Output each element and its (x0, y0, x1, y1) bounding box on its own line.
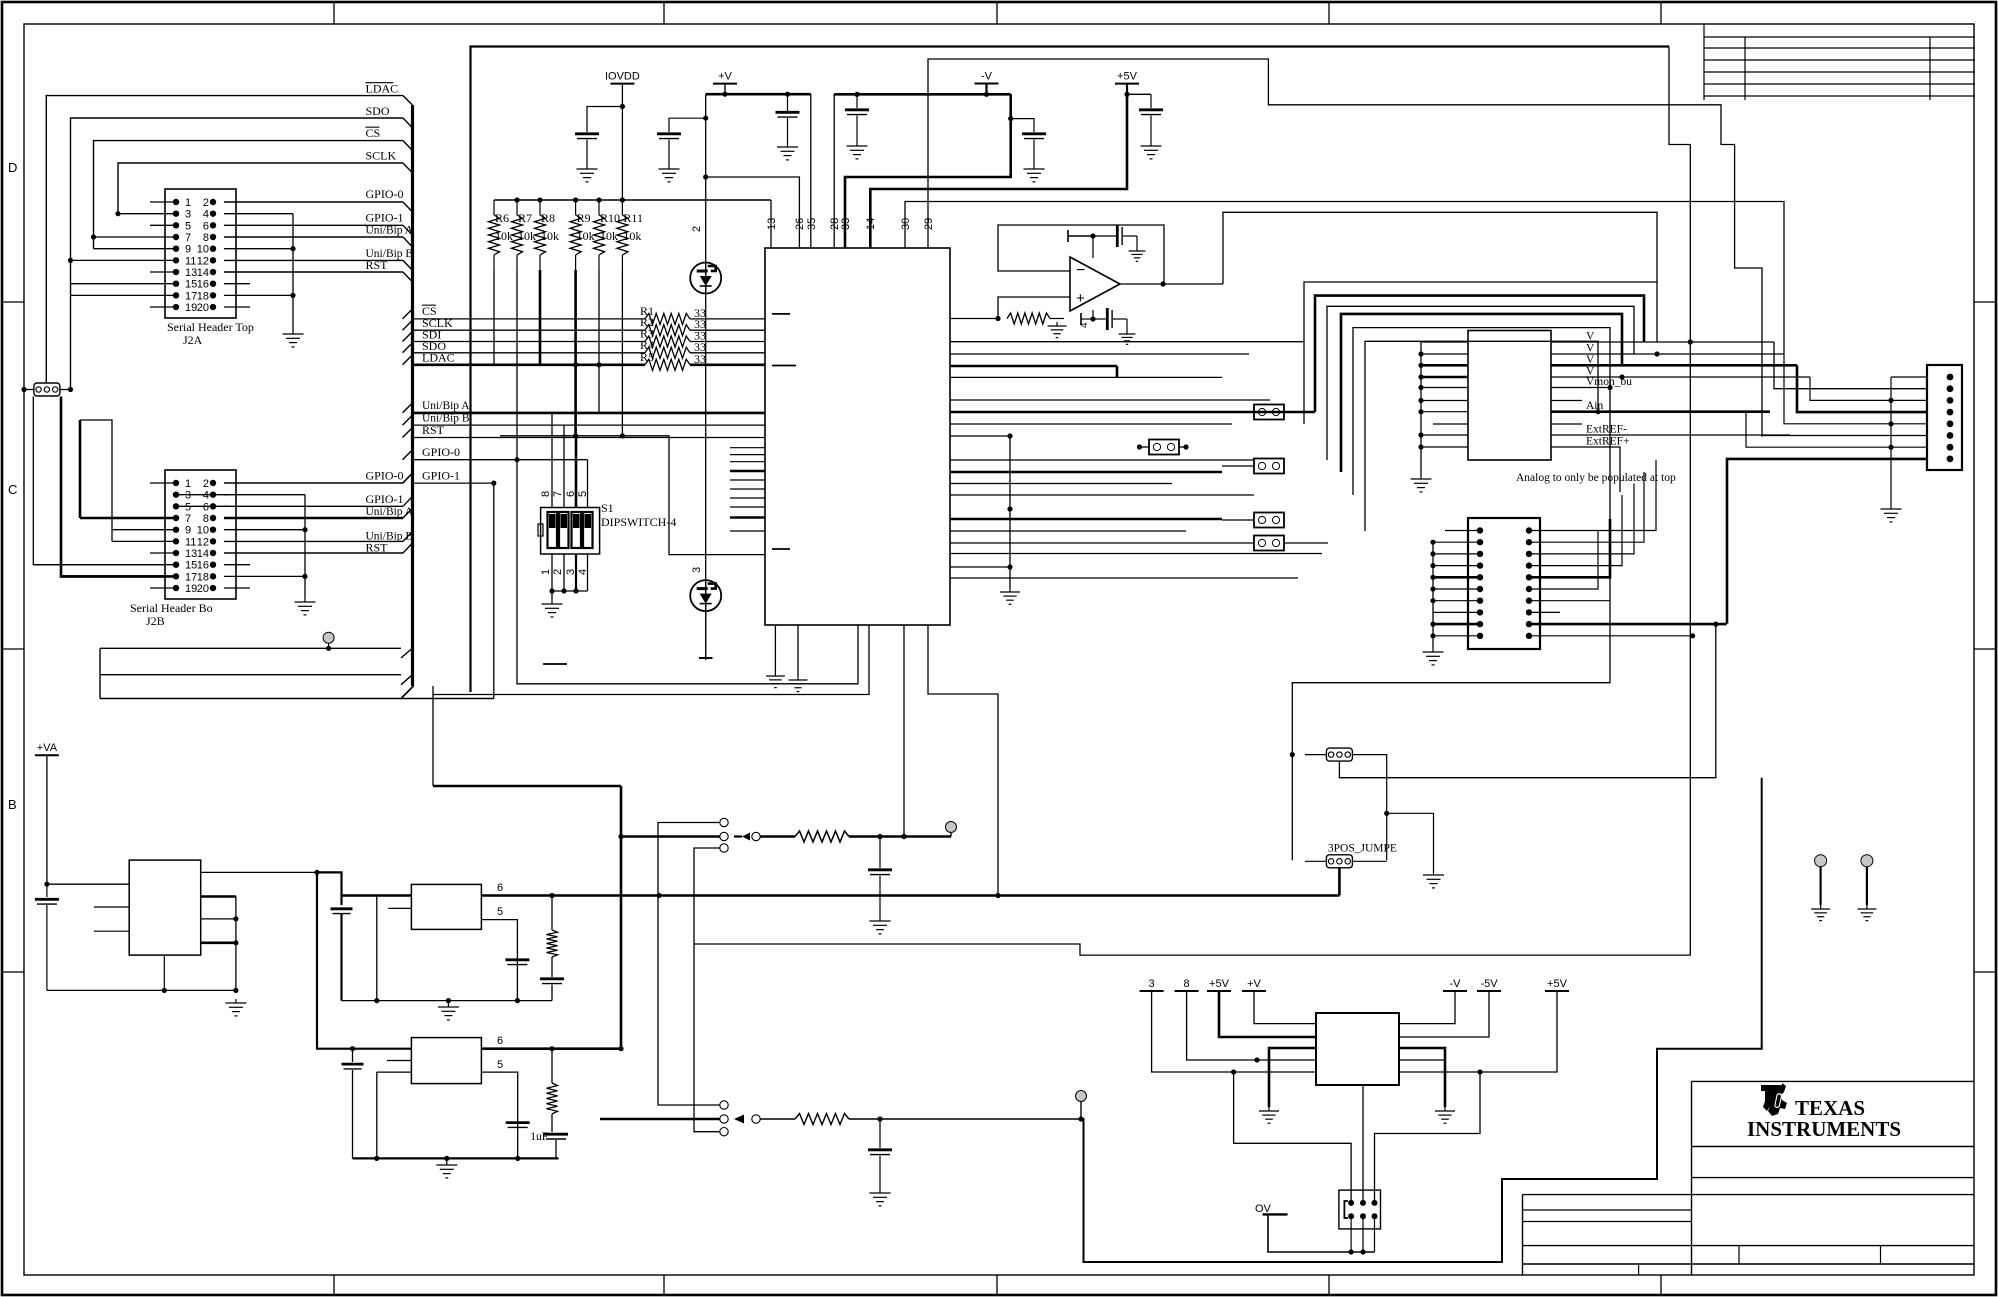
svg-text:R5: R5 (640, 350, 654, 364)
wire J3 left row5 (1433, 576, 1480, 579)
connector 3-pos jumper W1 (34, 383, 60, 396)
svg-text:6: 6 (497, 882, 503, 894)
junction J5 out (314, 870, 319, 875)
wire r2 right (849, 1118, 1081, 1120)
power -5V b (1477, 978, 1501, 991)
wire J2A pin13 stub (150, 271, 176, 273)
wire lb2 to resistor (760, 1118, 795, 1120)
svg-text:RST: RST (422, 423, 445, 437)
wire jp5 left (1140, 446, 1150, 448)
ground C -V left (847, 142, 868, 159)
junction (1418, 432, 1423, 437)
svg-text:J2A: J2A (183, 333, 203, 347)
wire J4 gnd vertical (1890, 377, 1892, 505)
svg-text:GPIO-0: GPIO-0 (422, 445, 460, 459)
junction J2A pin11 on SDO vertical (68, 258, 73, 263)
junction (233, 940, 238, 945)
wire U2 pin V1 (1551, 341, 1774, 343)
junction 8 (1254, 1057, 1259, 1062)
wires J4 rows (1891, 376, 1927, 378)
connector J2B Serial Header Bottom (165, 470, 236, 599)
wire J2A pin10 (224, 248, 293, 250)
svg-text:INSTRUMENTS: INSTRUMENTS (1747, 1117, 1901, 1141)
connector J2A Serial Header Top (165, 189, 236, 318)
wire U2 Ain (1551, 410, 1770, 413)
wire 3pos up right (1352, 755, 1386, 861)
wire pin29 top (928, 59, 1762, 437)
wire jb3 (694, 848, 720, 944)
svg-text:19: 19 (185, 583, 197, 595)
IC U1 pin marker 3 (772, 548, 790, 550)
junction +V (722, 92, 727, 97)
svg-text:14: 14 (197, 548, 209, 560)
ground J2B (295, 598, 316, 615)
svg-text:8: 8 (203, 513, 209, 525)
wire J3 left row8 (1433, 611, 1480, 613)
wire J2A pin3 (118, 213, 176, 215)
wire pin30 long (905, 202, 1784, 355)
resistor R2 33 (645, 325, 690, 336)
wire bus lower line 1 (100, 647, 401, 649)
ground J2A (283, 330, 304, 347)
capacitor C -V right (1011, 119, 1034, 132)
resistor R +in gnd (1007, 313, 1050, 324)
junction R8 top (537, 197, 542, 202)
wire U6 gnd left thick (1269, 1048, 1316, 1107)
capacitor reg2 out 1uF (544, 1134, 568, 1139)
resistor R9 10k (570, 200, 595, 270)
wire reg1 pin5 (481, 920, 517, 1001)
wire U2 stub (1551, 400, 1582, 402)
junction RST R9 (573, 433, 578, 438)
wire reg1 in pin (342, 894, 412, 897)
wire IC pin 928 down-right (928, 625, 998, 896)
junction R9 top (573, 197, 578, 202)
wire gnd chain x1010 (1009, 436, 1011, 588)
svg-text:10k: 10k (518, 229, 536, 243)
wire +V left branch (705, 94, 707, 660)
wire J2B pin20 stub (224, 587, 250, 589)
svg-text:-5V: -5V (1480, 978, 1498, 990)
wire thick 786 (433, 785, 621, 788)
switch S1 DIPSWITCH-4 (541, 508, 600, 555)
wire IC right y495 (950, 494, 1254, 496)
wire U2 left pin y424 (1433, 423, 1468, 425)
wire J3 row7 (1529, 600, 1610, 602)
wire reg1 left pin down (376, 896, 378, 1001)
capacitor C +5V (1150, 94, 1152, 108)
wire J3 row9 thick (1529, 623, 1727, 626)
resistor R8 10k (535, 200, 560, 270)
svg-text:13: 13 (766, 218, 778, 230)
wire 3pos right gnd (1387, 813, 1434, 871)
wire pin13 (770, 200, 772, 248)
wire J2A pin4 (224, 213, 293, 215)
svg-text:Uni/Bip A: Uni/Bip A (422, 400, 470, 412)
wire jumper right (60, 389, 71, 391)
wire thick 366 stair (1116, 366, 1119, 377)
svg-text:11: 11 (185, 536, 196, 548)
svg-text:GPIO-1: GPIO-1 (422, 469, 460, 483)
wire CS (94, 141, 404, 249)
ground J4 (1881, 505, 1902, 522)
ground J3 (1423, 648, 1444, 665)
wire J2A pin11 (71, 259, 177, 261)
svg-text:ExtREF-: ExtREF- (1586, 424, 1627, 436)
wire +5V net long (reg1) (481, 894, 1339, 897)
svg-text:20: 20 (197, 583, 209, 595)
svg-text:Serial Header Bo: Serial Header Bo (130, 601, 213, 615)
wire U2 ExtREF+ (1551, 447, 1620, 492)
svg-text:+: + (1076, 290, 1085, 307)
wire reg1 in pin (377, 895, 412, 897)
power -V (975, 71, 999, 84)
ground IC bottom 2 (789, 676, 808, 692)
wire J2B pin1 stub (150, 482, 176, 484)
svg-text:26: 26 (794, 218, 806, 230)
wire J5 stub1 (94, 906, 129, 908)
wire jp5 right (1179, 446, 1186, 448)
svg-text:10k: 10k (623, 229, 641, 243)
capacitor C iovdd (587, 107, 622, 133)
capacitor reg2 pin5 (506, 1123, 530, 1128)
resistor R3 33 (645, 336, 690, 347)
wire J3 left row3 (1433, 553, 1480, 555)
wire J2A pin19 stub (150, 306, 176, 308)
wire U2 stub2 (1551, 423, 1582, 425)
wire IC right y460 (950, 459, 1254, 461)
wire SCLK to R2 (403, 320, 413, 330)
wire J3 left common (1432, 542, 1434, 648)
wire J2B pin11 left (111, 530, 113, 542)
ground U2 left (1411, 475, 1432, 492)
ground cap vee (1119, 330, 1136, 344)
junction GPIO-0 R7 (514, 457, 519, 462)
power +V b (1242, 978, 1266, 991)
junction (1418, 385, 1423, 390)
svg-text:17: 17 (185, 571, 197, 583)
wire IC right y366 (950, 365, 1117, 368)
wire J3 right row6 (1529, 531, 1598, 589)
svg-text:Uni/Bip A: Uni/Bip A (366, 225, 414, 237)
svg-text:5: 5 (185, 501, 191, 513)
svg-text:30: 30 (900, 218, 912, 230)
wire J3 row8 stub (1529, 611, 1560, 613)
wire reg2 left pin (377, 1071, 412, 1073)
svg-text:−: − (1076, 262, 1085, 279)
junction (233, 916, 238, 921)
wire RST J2B pin14 (224, 552, 403, 554)
svg-text:9: 9 (185, 525, 191, 537)
svg-text:16: 16 (197, 560, 209, 572)
junction 3pos right (1384, 811, 1389, 816)
wire J3 left row9 (1433, 623, 1480, 626)
power +5V b2 (1545, 978, 1569, 991)
svg-text:J2B: J2B (146, 614, 165, 628)
svg-text:7: 7 (185, 513, 191, 525)
svg-text:Uni/Bip A: Uni/Bip A (366, 506, 414, 518)
title block (1691, 1081, 1693, 1275)
ground IC bottom 1 (766, 672, 785, 688)
svg-text:2: 2 (552, 569, 564, 575)
TI logo (1761, 1083, 1787, 1116)
wire nest 4 (1341, 314, 1622, 472)
junction row10 (1690, 633, 1695, 638)
ground reg2 (436, 1161, 457, 1178)
wire nest 6 (1365, 341, 1598, 531)
svg-text:R9: R9 (577, 211, 591, 225)
junction (1418, 398, 1423, 403)
svg-text:B: B (8, 797, 17, 812)
wire J3 left row4 (1433, 565, 1480, 567)
wire -V rail (834, 93, 1011, 96)
wire IC pin to +in (950, 318, 998, 320)
border ticks (333, 2, 335, 24)
wire OV (1268, 1214, 1375, 1252)
wire U6 gnd right thick (1399, 1048, 1445, 1107)
capacitor reg1 pin5 (505, 960, 529, 965)
wire IC right y424 (950, 423, 1232, 425)
svg-text:D: D (8, 160, 17, 175)
ground C -V right (1024, 165, 1045, 182)
wire 3pos up left (1305, 754, 1326, 756)
svg-text:2: 2 (203, 478, 209, 490)
svg-text:V: V (1586, 331, 1595, 343)
power +VA (35, 742, 59, 755)
svg-text:C: C (8, 482, 17, 497)
svg-text:18: 18 (197, 290, 209, 302)
svg-text:V: V (1586, 343, 1595, 355)
junction Vmon (1607, 385, 1612, 390)
wire J2A pin9 (94, 248, 177, 250)
wire J3 pin1 (1445, 530, 1480, 532)
wire Uni/Bip B J2A pin12 (224, 259, 403, 261)
ground U6 left (1259, 1107, 1279, 1123)
wire GPIO-1 J2A pin6 (224, 224, 403, 226)
wire IC right y377 (950, 376, 1222, 378)
wire reg1 gnd rail (342, 1000, 553, 1002)
wire GPIO-0 J2B pin2 (224, 482, 403, 484)
svg-text:5: 5 (185, 220, 191, 232)
junction op-amp out (1160, 281, 1165, 286)
wire jumper left to border (24, 389, 34, 391)
wire R6 bottom (493, 270, 495, 365)
resistor R7 10k (512, 200, 537, 270)
wire J2A pin20 stub (224, 306, 250, 308)
wire J3 right row2 (1529, 472, 1644, 542)
junction reg1 rail (374, 998, 379, 1003)
wire U2 left pin y411 (1421, 411, 1468, 413)
wire J2B pin7 thick (80, 517, 176, 520)
wire gnd rail (47, 989, 236, 991)
capacitor filter1 (879, 837, 881, 869)
wire R9 bottom (574, 270, 577, 436)
svg-text:10k: 10k (541, 229, 559, 243)
junction r2 (877, 1116, 882, 1121)
wire J2B pin18 (224, 575, 305, 577)
wire J2A pin15 (71, 283, 177, 285)
wire U2 pin V3 (1551, 364, 1797, 367)
wire IC right y412 (950, 411, 1284, 414)
wire R1 to IC (690, 318, 765, 320)
svg-text:R11: R11 (623, 211, 643, 225)
svg-text:Analog to only be populated at: Analog to only be populated at top (1516, 472, 1676, 484)
svg-text:29: 29 (923, 218, 935, 230)
svg-text:GPIO-0: GPIO-0 (366, 469, 404, 483)
wire R11 bottom (621, 270, 623, 436)
wire RST mid (403, 428, 413, 438)
svg-text:GPIO-1: GPIO-1 (366, 211, 404, 225)
wire U2 Vmon_bu (1551, 387, 1610, 389)
wire bus lower line 2 (100, 674, 401, 676)
junction jb2 (618, 834, 623, 839)
wire R10 bottom (598, 270, 600, 413)
wire SDI to R3 (403, 332, 413, 342)
junction CS/J2A pin7 (91, 234, 96, 239)
capacitor opamp vcc (1093, 235, 1116, 237)
wire 3pos mid long (1339, 624, 1715, 778)
wire DIP to IC left lower (500, 436, 765, 555)
wire Uni/Bip A J2B pin8 (224, 517, 403, 520)
wire R7 bottom (516, 270, 518, 460)
svg-text:10k: 10k (495, 229, 513, 243)
wire J5 right thick1 (201, 895, 236, 898)
wire J2A pin16 stub (224, 283, 250, 285)
svg-text:2: 2 (203, 197, 209, 209)
svg-text:35: 35 (806, 218, 818, 230)
wire reg2 pin6 out (481, 1047, 621, 1050)
wire thick L bottom (1081, 778, 1762, 1262)
wire U2 left pin y354 (1421, 353, 1468, 355)
svg-text:10: 10 (197, 525, 209, 537)
svg-text:7: 7 (185, 232, 191, 244)
wire IC right y400 (950, 399, 1270, 401)
wire J2B pin13 stub (150, 552, 176, 554)
capacitor reg1 in (331, 909, 353, 914)
junction opamp vcc (1090, 233, 1095, 238)
wire J5 out top (201, 871, 317, 873)
svg-text:Serial Header Top: Serial Header Top (167, 320, 254, 334)
svg-text:1: 1 (185, 197, 191, 209)
svg-text:19: 19 (185, 302, 197, 314)
wire J6 bottom pins (1350, 1216, 1352, 1252)
wire jumper pins down (33, 397, 165, 565)
svg-text:10: 10 (197, 244, 209, 256)
wire to pin26 (706, 177, 800, 248)
ground TP5 (1857, 905, 1876, 921)
op-amp U3 (1070, 257, 1120, 311)
junction V2 (1654, 351, 1659, 356)
op-amp vee pin4 (1092, 310, 1094, 319)
wire S1 pin8 up (551, 413, 553, 508)
junction SCLK/J2A pin3 (115, 211, 120, 216)
wire S1 pin5 up (587, 460, 589, 508)
wire U2 left pin y342 (1421, 341, 1468, 343)
wire IC right y472 (950, 471, 1222, 474)
wire J2B pin7 left vert (79, 420, 82, 518)
capacitor C +V left (669, 118, 706, 132)
junction reg2 out (549, 1046, 554, 1051)
IC U5 regulator2 (411, 1038, 481, 1084)
diode D2 pin3 (690, 580, 721, 611)
wire jb2 thick (621, 835, 720, 838)
wire IC right y567 (950, 566, 1010, 568)
svg-text:RST: RST (366, 258, 389, 272)
junction J5 bottom (162, 988, 167, 993)
wire J2B pin16 stub (224, 564, 250, 566)
wire left loop verticals (99, 648, 101, 698)
wire +5V to pin14 (870, 94, 1127, 248)
wire jb2 to resistor (760, 835, 795, 838)
junction reg2 rail (374, 1156, 379, 1161)
ground J5 (225, 999, 246, 1016)
wire Uni/Bip B mid (403, 415, 413, 425)
power OV (1255, 1203, 1288, 1215)
wire jp4 right (1284, 542, 1328, 544)
svg-text:6: 6 (497, 1035, 503, 1047)
ground C +V right (777, 143, 798, 160)
svg-text:5: 5 (497, 1059, 503, 1071)
power 3 (1140, 978, 1164, 991)
svg-text:R7: R7 (518, 211, 532, 225)
wire 3pos lower right (1352, 860, 1386, 862)
svg-text:+V: +V (1247, 978, 1261, 990)
svg-text:3: 3 (185, 490, 191, 502)
op-amp vcc pin (1092, 236, 1094, 258)
junction J6 bottom (1349, 1249, 1354, 1254)
svg-text:-V: -V (1450, 978, 1462, 990)
wire U2 left pin y387 (1421, 387, 1468, 389)
jumper JP4 (1254, 536, 1284, 551)
wire RST J2A pin14 (224, 271, 403, 273)
wire bus line3 to 433 (432, 686, 434, 695)
wire pin28 (833, 94, 835, 248)
svg-text:+VA: +VA (37, 742, 58, 754)
junction -V (984, 92, 989, 97)
wire +V to U6 (1254, 991, 1316, 1024)
wire U6 bottom to header col2 (1362, 1085, 1364, 1203)
power 8 (1175, 978, 1199, 991)
wire IC right y354 (950, 353, 1249, 355)
junction J2B pin18 (302, 574, 307, 579)
IC U1 DAC body (765, 248, 950, 625)
capacitor C -V left (856, 94, 858, 108)
wire reg2 input vert (317, 872, 411, 1048)
wire opamp out long (1223, 212, 1657, 341)
svg-text:1: 1 (185, 478, 191, 490)
connector 3POS jumper lower (1326, 855, 1352, 868)
resistor reg1 out (551, 896, 553, 931)
wire nest 2 (1304, 282, 1657, 424)
wire D2 bottom term (705, 611, 707, 655)
junction reg2 cap (350, 1046, 355, 1051)
jumper lower arrow (734, 1115, 744, 1124)
wire J3 right row1 (1529, 460, 1656, 531)
power +5V top (1115, 71, 1139, 84)
resistor R11 10k (617, 200, 643, 270)
svg-text:15: 15 (185, 560, 197, 572)
wire U2 left pin y365 (1421, 364, 1468, 367)
jumper JP3 (1254, 513, 1284, 528)
svg-text:CS: CS (366, 126, 381, 140)
wire -5V to U6 (1399, 991, 1489, 1037)
wire J5 right common (235, 897, 237, 991)
junction 3pos left (1290, 752, 1295, 757)
wire IC right y436 (950, 435, 1010, 437)
svg-text:SCLK: SCLK (366, 149, 397, 163)
wire 3pos lower left (1305, 860, 1326, 862)
wire R3 to IC (690, 341, 765, 343)
